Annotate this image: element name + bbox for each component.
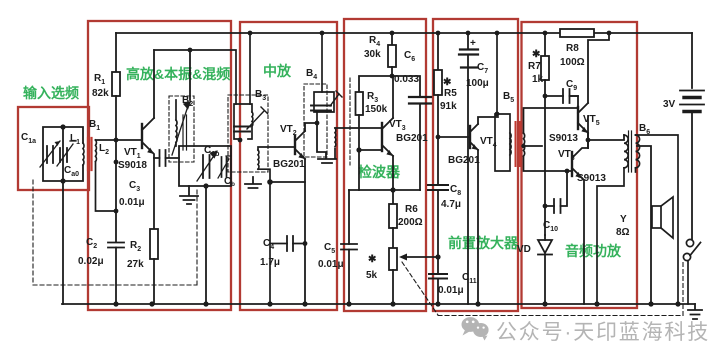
svg-text:✱: ✱ bbox=[368, 254, 377, 265]
capacitor C3 bbox=[154, 150, 179, 166]
wire bottom ground rail bbox=[62, 303, 695, 305]
transistor VT3 BG201 bbox=[359, 76, 393, 190]
svg-text:VD: VD bbox=[517, 244, 531, 255]
svg-text:B5: B5 bbox=[503, 91, 514, 104]
node dot B5 top bbox=[495, 112, 500, 117]
B3 secondary winding bbox=[258, 147, 305, 304]
svg-text:L1: L1 bbox=[70, 133, 80, 146]
svg-text:Cb: Cb bbox=[224, 176, 235, 188]
dashed gang link C1a-C1b bbox=[33, 180, 197, 285]
capacitor C6 bbox=[392, 76, 431, 190]
node dot wiper junction bbox=[435, 254, 440, 259]
svg-text:8Ω: 8Ω bbox=[616, 227, 630, 238]
svg-text:B3: B3 bbox=[255, 89, 266, 102]
svg-text:C7: C7 bbox=[477, 62, 488, 75]
svg-text:B4: B4 bbox=[306, 68, 317, 81]
svg-text:Y: Y bbox=[620, 214, 627, 225]
svg-text:200Ω: 200Ω bbox=[398, 217, 423, 228]
svg-text:音频功放: 音频功放 bbox=[565, 243, 622, 259]
stage box 检波器 bbox=[344, 19, 426, 311]
capacitor C10 bbox=[545, 171, 567, 213]
svg-text:1k: 1k bbox=[532, 74, 544, 85]
svg-text:R1: R1 bbox=[94, 73, 105, 86]
resistor R5 bbox=[434, 33, 442, 185]
inductor L2 (secondary) bbox=[96, 140, 117, 211]
resistor R7 bbox=[541, 33, 549, 235]
transistor VT5 S9013 bbox=[570, 33, 609, 148]
svg-text:30k: 30k bbox=[364, 49, 381, 60]
svg-text:0.01μ: 0.01μ bbox=[438, 285, 464, 296]
svg-text:B1: B1 bbox=[89, 119, 100, 132]
node dot VT5/VT6 mid bbox=[586, 138, 591, 143]
svg-text:S9018: S9018 bbox=[118, 160, 147, 171]
svg-text:100μ: 100μ bbox=[466, 78, 489, 89]
wire speaker feed bbox=[637, 146, 651, 304]
svg-text:0.01μ: 0.01μ bbox=[119, 197, 145, 208]
interstage transformer B5 bbox=[495, 33, 578, 171]
svg-text:100Ω: 100Ω bbox=[560, 57, 585, 68]
battery 3V bbox=[680, 91, 704, 112]
node dots C10 bbox=[543, 169, 570, 209]
svg-text:3V: 3V bbox=[663, 99, 676, 110]
wire tank to ground rail bbox=[205, 186, 207, 304]
svg-text:150k: 150k bbox=[365, 104, 388, 115]
svg-text:R4: R4 bbox=[369, 35, 380, 48]
svg-text:S9013: S9013 bbox=[549, 133, 578, 144]
resistor R4 bbox=[388, 33, 396, 76]
wire mid to B6 bbox=[588, 135, 624, 140]
node dot R3/base bbox=[356, 147, 361, 152]
resistor R8 bbox=[560, 29, 594, 37]
capacitor C11 bbox=[429, 257, 447, 304]
resistor R1 bbox=[112, 33, 120, 242]
arrow emitter VT3 bbox=[386, 150, 393, 156]
resistor R3 bbox=[356, 76, 394, 190]
node dots B5 secondary bbox=[521, 144, 525, 148]
svg-text:VT5: VT5 bbox=[583, 114, 600, 127]
svg-text:B6: B6 bbox=[639, 123, 650, 136]
dashed link volume-switch bbox=[402, 260, 683, 316]
node dot B4 primary bottom bbox=[315, 121, 320, 126]
svg-text:R2: R2 bbox=[130, 240, 141, 253]
svg-text:R3: R3 bbox=[367, 91, 378, 104]
arrow emitter VT1 bbox=[147, 148, 154, 154]
tank loop rectangle (input tuned circuit) bbox=[43, 127, 83, 181]
svg-text:C8: C8 bbox=[450, 184, 461, 197]
svg-text:82k: 82k bbox=[92, 88, 109, 99]
arrow emitter VT5 bbox=[581, 127, 588, 133]
svg-text:输入选频: 输入选频 bbox=[23, 85, 79, 101]
svg-text:Ca0: Ca0 bbox=[64, 165, 79, 178]
stage box 输入选频 bbox=[18, 107, 89, 190]
svg-text:BG201: BG201 bbox=[396, 133, 428, 144]
node dot emitter VT2 / C4 bbox=[303, 241, 308, 246]
svg-text:公众号·天印蓝海科技: 公众号·天印蓝海科技 bbox=[496, 321, 710, 344]
svg-text:91k: 91k bbox=[440, 101, 457, 112]
B4 secondary winding bbox=[335, 128, 382, 158]
svg-text:27k: 27k bbox=[127, 259, 144, 270]
output transformer B6 bbox=[597, 131, 678, 304]
IF transformer B3 (dashed can) bbox=[228, 95, 268, 172]
watermark icon (chat bubbles) bbox=[462, 317, 489, 340]
wire emitter node bbox=[349, 189, 420, 191]
arrow wiper bbox=[399, 254, 407, 261]
svg-text:VT1: VT1 bbox=[124, 147, 141, 160]
ground (B3 can) bbox=[245, 177, 261, 188]
stage box 高放&本振&混频 bbox=[88, 21, 231, 310]
diode VD bbox=[538, 235, 552, 304]
node dot tank bottom bbox=[203, 183, 208, 188]
svg-text:C1a: C1a bbox=[21, 132, 36, 145]
svg-text:C4: C4 bbox=[263, 238, 274, 251]
transistor VT2 BG201 bbox=[295, 123, 317, 304]
svg-text:5k: 5k bbox=[366, 270, 378, 281]
resistor R6 bbox=[389, 190, 397, 248]
arrow emitter VT4 bbox=[472, 144, 478, 150]
svg-text:4.7μ: 4.7μ bbox=[441, 199, 461, 210]
svg-text:前置放大器: 前置放大器 bbox=[448, 235, 519, 251]
svg-text:✱: ✱ bbox=[443, 77, 452, 88]
svg-text:VT2: VT2 bbox=[280, 124, 297, 137]
svg-text:R5: R5 bbox=[444, 88, 457, 99]
ground (battery return) bbox=[688, 304, 702, 319]
oscillator coil B2 (dashed can) bbox=[169, 96, 194, 162]
svg-text:L2: L2 bbox=[99, 143, 109, 156]
svg-text:C1b: C1b bbox=[204, 145, 219, 158]
stage box 音频功放 bbox=[522, 22, 638, 308]
svg-text:+: + bbox=[470, 38, 476, 49]
transistor VT4 BG201 bbox=[470, 117, 498, 304]
transistor VT6 S9013 bbox=[572, 116, 588, 304]
svg-text:C5: C5 bbox=[324, 242, 335, 255]
svg-text:S9013: S9013 bbox=[577, 173, 606, 184]
ground (oscillator) bbox=[180, 186, 198, 204]
ground (B4 primary) bbox=[317, 123, 336, 163]
node dot B3 bottom bbox=[238, 138, 243, 143]
svg-text:VT3: VT3 bbox=[389, 119, 406, 132]
svg-text:0.01μ: 0.01μ bbox=[318, 259, 344, 270]
oscillator tank rectangle bbox=[179, 146, 231, 186]
node dots input tank bbox=[60, 124, 118, 213]
B4 tuned primary bbox=[311, 33, 342, 123]
svg-text:C6: C6 bbox=[404, 50, 415, 63]
wire VT4 base bbox=[438, 136, 470, 138]
junction dots rails bbox=[113, 31, 680, 307]
transistor VT1 S9018 bbox=[116, 50, 190, 229]
capacitor C8 bbox=[428, 185, 448, 257]
svg-text:检波器: 检波器 bbox=[358, 164, 401, 180]
svg-text:0.033: 0.033 bbox=[394, 74, 419, 85]
node dot collector wire bbox=[188, 48, 193, 53]
svg-text:R6: R6 bbox=[405, 204, 418, 215]
wire battery column bbox=[691, 33, 693, 239]
dashed line (AGC) bbox=[349, 78, 351, 165]
svg-text:0.02μ: 0.02μ bbox=[78, 256, 104, 267]
node dot B3 secondary return bbox=[267, 179, 273, 185]
svg-text:R7: R7 bbox=[528, 61, 541, 72]
transformer B5 core (red bars) bbox=[516, 122, 521, 166]
IF transformer B4 (dashed can) bbox=[304, 84, 327, 157]
svg-text:✱: ✱ bbox=[532, 49, 541, 60]
wire top supply rail bbox=[116, 32, 692, 34]
inductor L1 (antenna coil primary) bbox=[82, 143, 85, 165]
svg-text:BG201: BG201 bbox=[273, 159, 305, 170]
B3 tuned primary bbox=[154, 33, 268, 139]
wire tank to ground rail bbox=[62, 181, 64, 304]
capacitor C5 bbox=[341, 190, 357, 304]
svg-text:C3: C3 bbox=[129, 180, 140, 193]
node dot emitter VT3 bbox=[390, 187, 395, 192]
svg-text:中放: 中放 bbox=[263, 63, 292, 79]
capacitor C7 (electrolytic) bbox=[459, 33, 478, 304]
speaker Y 8ohm bbox=[652, 197, 673, 238]
capacitor C4 bbox=[270, 236, 305, 251]
svg-text:C11: C11 bbox=[462, 272, 477, 285]
svg-text:C9: C9 bbox=[566, 79, 577, 92]
transformer B1 core (red bars) bbox=[88, 138, 92, 170]
trimmer capacitor Ca0 bbox=[57, 141, 76, 166]
svg-text:R8: R8 bbox=[566, 43, 579, 54]
trimmer capacitor C0b bbox=[218, 156, 231, 178]
variable capacitor C1b bbox=[197, 152, 217, 181]
svg-text:高放&本振&混频: 高放&本振&混频 bbox=[126, 66, 230, 82]
stage box 前置放大器 bbox=[433, 19, 518, 311]
node dot R3/collector bbox=[390, 74, 395, 79]
B2 winding bbox=[172, 100, 190, 155]
arrow emitter VT2 bbox=[298, 153, 305, 159]
capacitor C9 bbox=[545, 89, 578, 103]
switch K bbox=[683, 239, 700, 304]
variable capacitor C1a bbox=[40, 141, 60, 167]
svg-text:BG201: BG201 bbox=[448, 155, 480, 166]
potentiometer 5k (volume) bbox=[389, 248, 438, 304]
resistor R2 bbox=[150, 229, 158, 304]
svg-text:1.7μ: 1.7μ bbox=[260, 257, 280, 268]
capacitor C2 bbox=[108, 243, 124, 305]
node dot C9/R7 bbox=[543, 94, 548, 99]
node dot base VT4 bbox=[436, 135, 441, 140]
stage box 中放 bbox=[240, 22, 337, 310]
arrow emitter VT6 bbox=[575, 172, 582, 178]
